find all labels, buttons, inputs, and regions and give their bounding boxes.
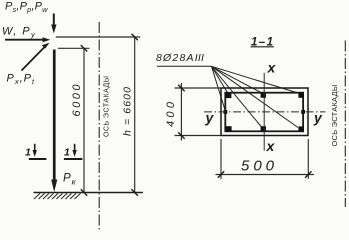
svg-text:ОСЬ ЭСТАКАДЫ: ОСЬ ЭСТАКАДЫ [104,76,111,137]
svg-text:y: y [313,110,323,126]
svg-text:1: 1 [64,147,70,159]
svg-text:500: 500 [241,158,275,175]
svg-text:x: x [266,138,276,154]
svg-text:Px,Pt: Px,Pt [7,73,36,87]
svg-text:y: y [205,110,215,126]
svg-text:8Ø28AIII: 8Ø28AIII [156,52,204,64]
svg-text:h = 6600: h = 6600 [122,87,134,136]
svg-text:6000: 6000 [71,84,83,117]
svg-text:x: x [267,60,277,76]
svg-text:Ps,Pp,Pw: Ps,Pp,Pw [5,1,48,15]
svg-text:400: 400 [165,101,177,127]
svg-text:ОСЬ ЭСТАКАДЫ: ОСЬ ЭСТАКАДЫ [330,84,339,146]
svg-text:1: 1 [25,147,31,159]
